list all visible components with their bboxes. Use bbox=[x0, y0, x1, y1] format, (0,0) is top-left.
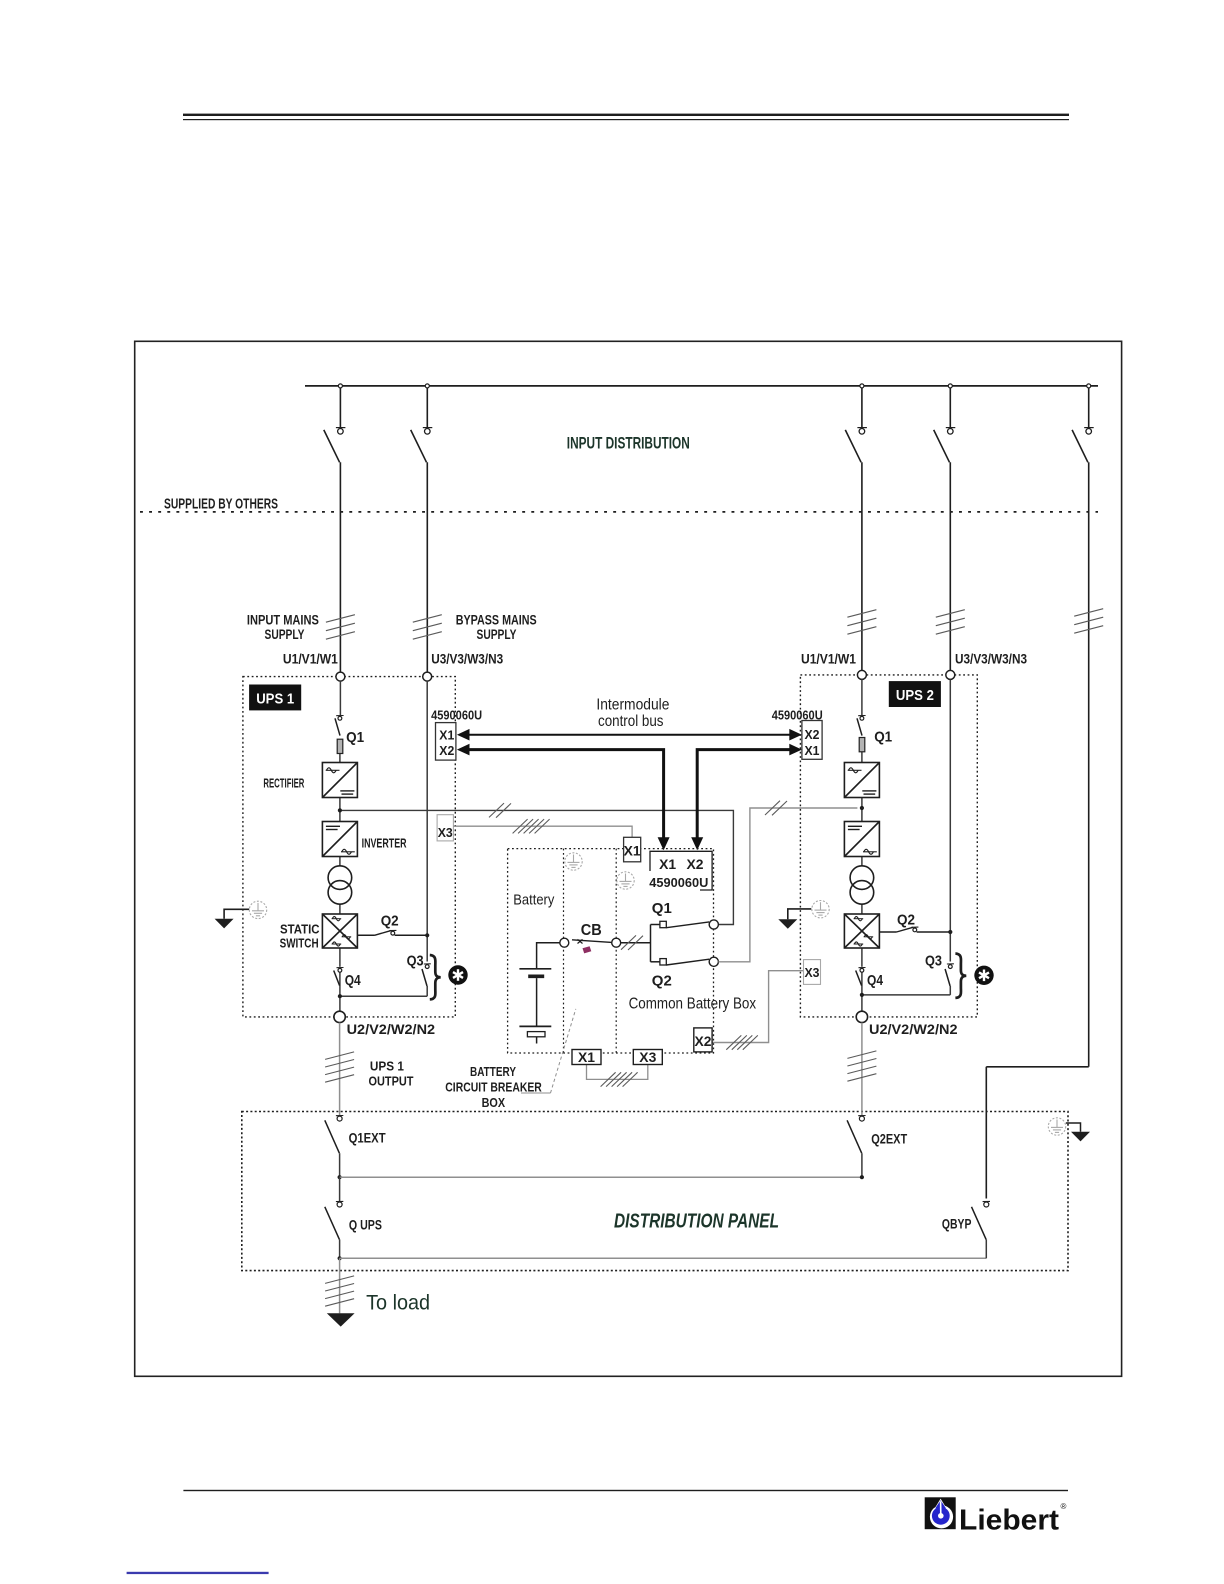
svg-text:X3: X3 bbox=[438, 826, 453, 840]
svg-text:BYPASS MAINS: BYPASS MAINS bbox=[456, 613, 537, 628]
svg-text:BOX: BOX bbox=[482, 1095, 506, 1110]
svg-text:INVERTER: INVERTER bbox=[362, 837, 407, 851]
svg-text:DISTRIBUTION PANEL: DISTRIBUTION PANEL bbox=[614, 1211, 779, 1233]
svg-text:X1: X1 bbox=[578, 1050, 596, 1065]
svg-text:X2: X2 bbox=[687, 856, 704, 872]
svg-text:INPUT DISTRIBUTION: INPUT DISTRIBUTION bbox=[567, 434, 690, 453]
svg-text:U3/V3/W3/N3: U3/V3/W3/N3 bbox=[431, 651, 503, 667]
svg-text:Common Battery Box: Common Battery Box bbox=[629, 996, 757, 1013]
svg-text:Q1: Q1 bbox=[874, 728, 892, 745]
svg-text:Q1: Q1 bbox=[346, 729, 364, 746]
svg-text:U1/V1/W1: U1/V1/W1 bbox=[283, 651, 338, 667]
svg-text:X2: X2 bbox=[695, 1033, 712, 1049]
svg-text:To load: To load bbox=[366, 1292, 430, 1315]
svg-text:U2/V2/W2/N2: U2/V2/W2/N2 bbox=[869, 1021, 958, 1037]
svg-text:SUPPLY: SUPPLY bbox=[265, 627, 305, 642]
svg-text:SWITCH: SWITCH bbox=[280, 937, 319, 951]
svg-text:X1: X1 bbox=[439, 729, 454, 743]
svg-text:CB: CB bbox=[581, 922, 602, 939]
svg-text:SUPPLY: SUPPLY bbox=[477, 627, 517, 642]
svg-text:QBYP: QBYP bbox=[942, 1217, 972, 1232]
svg-text:SUPPLIED BY OTHERS: SUPPLIED BY OTHERS bbox=[164, 497, 278, 513]
svg-text:X1: X1 bbox=[659, 856, 676, 872]
svg-text:Q3: Q3 bbox=[407, 952, 424, 969]
svg-text:Q2: Q2 bbox=[652, 973, 672, 990]
svg-text:RECTIFIER: RECTIFIER bbox=[263, 777, 304, 791]
svg-text:4590060U: 4590060U bbox=[649, 875, 708, 890]
svg-text:UPS 1: UPS 1 bbox=[370, 1059, 404, 1074]
svg-text:Q4: Q4 bbox=[345, 972, 362, 989]
svg-text:Q1EXT: Q1EXT bbox=[349, 1131, 387, 1146]
svg-text:X3: X3 bbox=[805, 966, 820, 980]
svg-text:BATTERY: BATTERY bbox=[470, 1064, 516, 1079]
svg-text:CIRCUIT BREAKER: CIRCUIT BREAKER bbox=[445, 1080, 542, 1095]
svg-text:Q UPS: Q UPS bbox=[349, 1218, 382, 1233]
svg-text:X1: X1 bbox=[624, 844, 642, 859]
svg-text:U3/V3/W3/N3: U3/V3/W3/N3 bbox=[955, 651, 1027, 667]
svg-text:Q2: Q2 bbox=[381, 913, 399, 930]
svg-text:Q2: Q2 bbox=[897, 912, 915, 929]
svg-text:Q3: Q3 bbox=[925, 952, 942, 969]
svg-text:control bus: control bus bbox=[598, 713, 664, 730]
svg-text:STATIC: STATIC bbox=[280, 923, 320, 937]
svg-text:Q4: Q4 bbox=[867, 972, 884, 989]
svg-text:X2: X2 bbox=[805, 728, 820, 742]
svg-text:4590060U: 4590060U bbox=[772, 708, 823, 722]
svg-text:4590060U: 4590060U bbox=[431, 708, 482, 722]
svg-text:INPUT MAINS: INPUT MAINS bbox=[247, 613, 319, 628]
svg-text:®: ® bbox=[1061, 1502, 1067, 1511]
svg-text:U2/V2/W2/N2: U2/V2/W2/N2 bbox=[347, 1021, 436, 1037]
svg-text:U1/V1/W1: U1/V1/W1 bbox=[801, 651, 856, 667]
svg-text:UPS 2: UPS 2 bbox=[896, 687, 934, 704]
svg-text:X2: X2 bbox=[439, 744, 454, 758]
svg-text:X1: X1 bbox=[805, 744, 820, 758]
svg-text:Liebert: Liebert bbox=[959, 1505, 1059, 1537]
svg-text:Q2EXT: Q2EXT bbox=[871, 1132, 908, 1147]
svg-text:X3: X3 bbox=[639, 1050, 657, 1065]
svg-text:Q1: Q1 bbox=[652, 900, 672, 917]
svg-text:Intermodule: Intermodule bbox=[596, 697, 669, 714]
svg-text:OUTPUT: OUTPUT bbox=[369, 1074, 414, 1089]
svg-text:Battery: Battery bbox=[513, 892, 554, 909]
svg-text:UPS 1: UPS 1 bbox=[256, 691, 294, 708]
